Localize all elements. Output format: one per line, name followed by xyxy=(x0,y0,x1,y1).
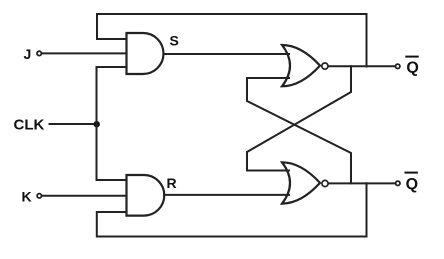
svg-text:R: R xyxy=(167,175,177,191)
bubble U3 xyxy=(322,63,328,69)
wire: cross coupling NOR1 output to NOR2 upper input xyxy=(247,66,351,170)
and-gate U1 (top, 3-input) xyxy=(127,33,164,74)
output terminal Q-bar bottom xyxy=(396,181,400,185)
wire: K input to AND2 xyxy=(43,195,127,197)
wire: bottom feedback loop (Q-bar bottom output to AND2 bottom input) xyxy=(97,183,367,236)
svg-text:K: K xyxy=(22,189,32,205)
svg-text:S: S xyxy=(170,32,179,48)
svg-text:Q: Q xyxy=(406,176,418,193)
nor-gate U4 (bottom) xyxy=(282,162,320,203)
wire: CLK horizontal xyxy=(50,123,97,125)
wire: S (AND1 output to NOR1 top input) xyxy=(164,53,290,55)
svg-text:J: J xyxy=(24,46,32,62)
svg-text:Q: Q xyxy=(406,59,418,76)
wire: cross coupling NOR2 output to NOR1 lower input xyxy=(247,78,351,183)
wire: top feedback loop (Q-bar top output to AND1 top input) xyxy=(97,14,367,67)
junction: CLK node xyxy=(94,121,100,127)
svg-text:CLK: CLK xyxy=(14,117,45,134)
input terminal K xyxy=(37,194,41,198)
wire: NOR1 output to Q-bar top terminal xyxy=(329,65,395,67)
and-gate U2 (bottom, 3-input) xyxy=(127,175,165,216)
wire: J input to AND1 xyxy=(43,52,127,54)
bubble U4 xyxy=(322,180,328,186)
nor-gate U3 (top) xyxy=(282,45,320,86)
output terminal Q-bar top xyxy=(396,64,400,68)
wire: NOR2 output to Q-bar bottom terminal xyxy=(329,182,396,184)
wire: R (AND2 output to NOR2 bottom input) xyxy=(164,194,289,196)
wire: CLK vertical to AND1 and AND2 xyxy=(97,67,127,180)
input terminal J xyxy=(37,51,41,55)
